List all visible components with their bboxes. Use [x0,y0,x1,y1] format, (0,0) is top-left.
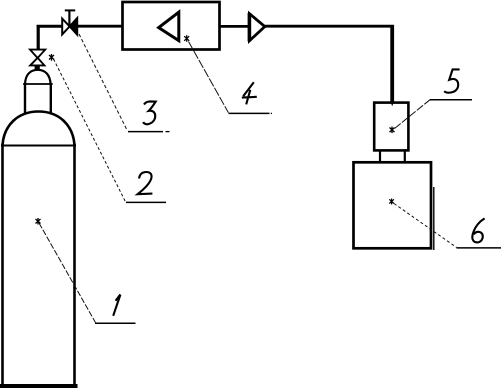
mark in box 6 (leader 6 tip) [389,199,394,205]
mark in box 4 (leader 4 tip) [184,35,189,42]
label 5 underline [430,99,472,101]
shadow line right of box 6 [433,187,435,250]
label 3 underline [128,131,163,133]
mark in box 5 (leader 5 tip) [390,127,395,134]
label 2 digit [138,172,153,194]
label 4 digit [242,82,257,104]
box 4 (apparatus with left-pointing triangle) [123,2,220,50]
gas cylinder 1 shoulder dome [3,112,75,146]
leader line 3 [79,34,127,131]
label 6 underline [457,247,501,249]
wire: vertical pipe down to box 5 [390,25,394,102]
box 6 (large unit) [354,162,432,248]
arrowhead entering box 5 [390,101,394,106]
label 5 digit [444,69,459,92]
neck between box 5 and box 6 [380,151,405,163]
gas cylinder 1 collar [24,84,52,112]
box 5 (small unit) [374,103,408,151]
triangle symbol inside box 4 [159,12,179,40]
gas cylinder 1 neck dome [25,70,51,84]
mark near valve 2 (leader 2 tip) [49,54,54,61]
wire: pipe check valve to corner [265,25,394,28]
gas cylinder 1 valve stem [35,64,40,70]
leader line 6 [394,204,457,248]
wire: horizontal pipe corner to valve 3 [37,25,63,28]
leader line 1 [39,223,95,322]
leader line 2 [54,59,126,202]
label 6 digit [472,218,484,242]
check valve (right-pointing triangle) [249,14,264,41]
label 4 underline [229,112,270,114]
label 2 underline [126,201,166,203]
wire: pipe valve 3 to box 4 [77,25,122,28]
leader line 4 [189,42,229,113]
label 3 digit [143,101,156,124]
wire: vertical pipe from corner down to valve 2 [37,25,40,50]
wire: pipe box 4 to check valve [220,25,250,28]
valve 3 (shut-off valve with T-handle) [62,10,77,35]
mark on cylinder (leader 1 tip) [36,218,41,225]
gas cylinder 1 body [2,145,76,386]
leader line 5 [395,100,430,129]
valve 2 (cylinder valve, vertical bowtie) [30,50,45,66]
label 1 underline [95,322,136,324]
label 1 digit [113,294,120,315]
